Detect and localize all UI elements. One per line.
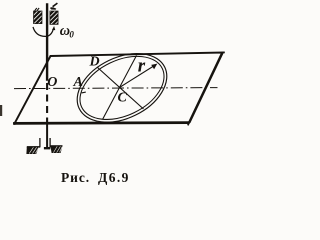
- svg-text:r: r: [138, 56, 146, 77]
- lower step bearing: [26, 138, 62, 154]
- left support: top line + hatch: [27, 146, 40, 148]
- plate (platform) outline: [15, 53, 223, 124]
- svg-text:0: 0: [69, 29, 74, 39]
- axis centerline (dash-dot through O A C): [14, 88, 218, 89]
- ring (circular channel) on plate: [66, 40, 178, 136]
- svg-text:D: D: [89, 54, 100, 69]
- upper bearing right block: [50, 11, 58, 24]
- steep diameter: [103, 56, 137, 120]
- svg-text:Рис.: Рис.: [61, 170, 90, 185]
- svg-text:Д6.9: Д6.9: [98, 170, 130, 185]
- radius r with arrow: [120, 64, 158, 88]
- edge smudge: [0, 105, 2, 116]
- vertical shaft: lower solid: [46, 124, 48, 148]
- shaft foot: [44, 147, 50, 149]
- diameter through D: [97, 67, 144, 109]
- right support: top line + hatch: [50, 145, 62, 147]
- vertical shaft: upper solid: [46, 3, 48, 81]
- plate bottom edge (thicker): [13, 121, 189, 125]
- small arrow at shaft top: [50, 3, 57, 10]
- tick near A inside ring: [82, 91, 86, 94]
- upper bearing left block: [34, 8, 43, 24]
- cup walls: [39, 138, 41, 147]
- svg-text:O: O: [47, 75, 57, 90]
- svg-text:A: A: [73, 75, 83, 90]
- svg-text:C: C: [118, 91, 128, 106]
- vertical shaft: hidden dashed: [46, 83, 48, 123]
- omega_0 rotation arc: [33, 26, 55, 36]
